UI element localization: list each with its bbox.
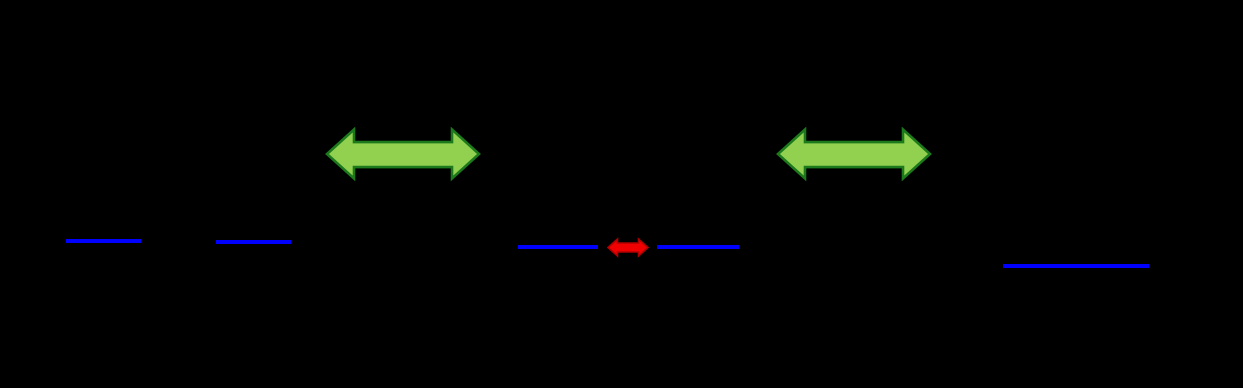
- small observed distance arrow (red double arrow): [605, 236, 651, 259]
- read pair 2 left read (blue segment): [518, 245, 598, 249]
- expected insert size arrow (green double arrow A): [324, 124, 482, 184]
- long read (blue segment, right): [1003, 264, 1149, 268]
- expected insert size arrow (green double arrow B): [775, 124, 933, 184]
- read pair 2 right read (blue segment): [657, 245, 739, 249]
- read pair 1 right read (blue segment): [216, 240, 291, 244]
- read pair 1 left read (blue segment): [66, 239, 141, 243]
